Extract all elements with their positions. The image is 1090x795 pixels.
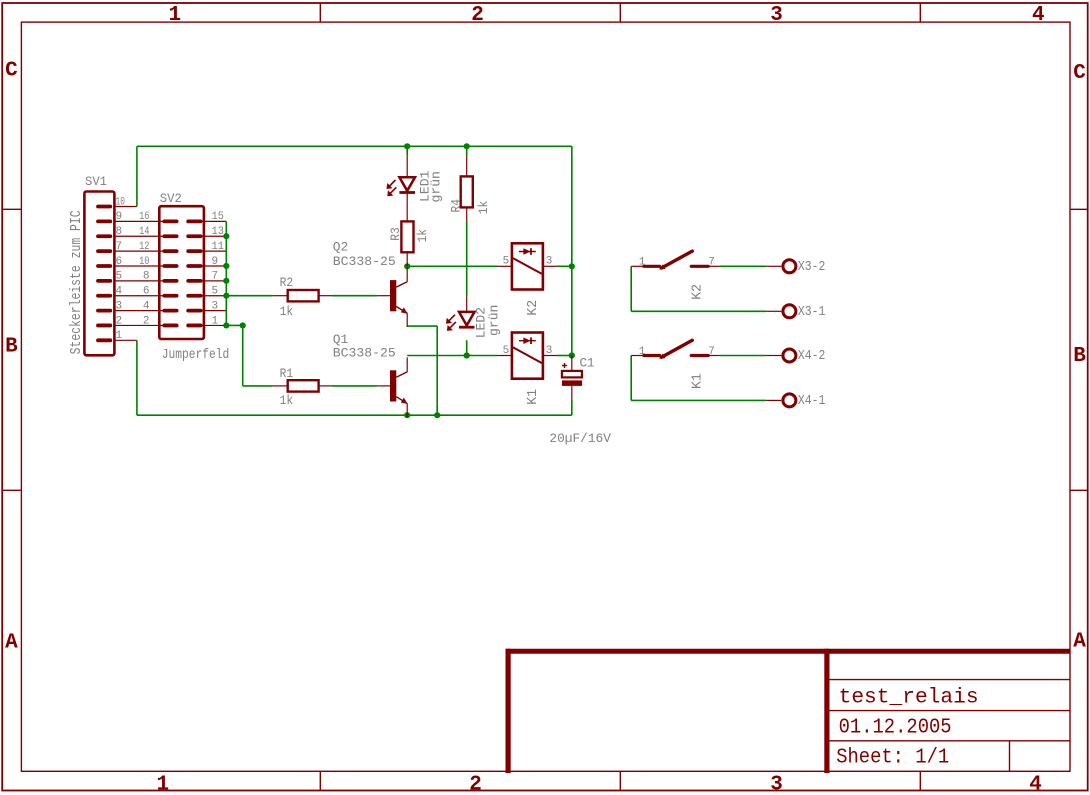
- transistor Q2 BC338-25: [377, 267, 408, 327]
- connector SV1 pin 2 line to SV2: [114, 324, 164, 326]
- svg-text:Sheet: 1/1: Sheet: 1/1: [836, 747, 949, 770]
- relay coil diode triangle: [523, 248, 530, 255]
- relay coil diode triangle: [523, 337, 530, 344]
- connector SV2 pin 13 line (right): [201, 235, 227, 237]
- connector SV1 pin 6 contact bar: [98, 264, 110, 268]
- svg-text:8: 8: [116, 226, 123, 238]
- junction dot SV2 pin 5: [223, 293, 229, 299]
- svg-text:1k: 1k: [280, 304, 294, 319]
- connector SV1 pin 3 line to SV2: [114, 310, 164, 312]
- svg-text:2: 2: [469, 774, 482, 795]
- svg-text:9: 9: [116, 211, 123, 223]
- svg-text:11: 11: [212, 241, 225, 253]
- wire R2 to Q2 base: [332, 295, 377, 297]
- LED LED2 emission arrow 1: [449, 315, 456, 322]
- svg-text:2: 2: [143, 315, 150, 327]
- svg-text:6: 6: [143, 286, 150, 298]
- connector SV2 pin 15 contact bar (right): [188, 219, 200, 223]
- resistor R1 body: [288, 380, 319, 391]
- svg-text:15: 15: [212, 211, 224, 223]
- svg-text:20µF/16V: 20µF/16V: [549, 431, 611, 446]
- LED LED2 anode pin: [466, 296, 468, 312]
- connector SV1 pin 10 line: [114, 206, 136, 208]
- junction dot LED2 cathode node: [464, 352, 470, 358]
- svg-text:1k: 1k: [476, 201, 491, 215]
- svg-text:3: 3: [546, 256, 553, 268]
- contact lever arrowhead: [659, 264, 666, 269]
- junction dot R1 branch: [240, 322, 246, 328]
- junction dot right rail at K2 pin 3: [569, 263, 575, 269]
- svg-text:X4-2: X4-2: [798, 349, 825, 364]
- connector SV1 pin 8 line to SV2: [114, 235, 164, 237]
- transistor collector diagonal: [396, 282, 407, 288]
- LED LED2 triangle: [459, 312, 475, 326]
- wire Q2 collector node to relay K2 pin 5: [407, 265, 497, 267]
- junction dot SV2 pin 1: [223, 322, 229, 328]
- svg-text:Q2: Q2: [333, 239, 349, 254]
- transistor emitter diagonal: [396, 307, 407, 314]
- wire SV2 odd-pin bus vertical: [225, 221, 227, 325]
- svg-text:grün: grün: [487, 305, 502, 336]
- svg-text:grün: grün: [429, 171, 444, 202]
- capacitor C1 top pin: [571, 356, 573, 371]
- relay coil diagonal: [513, 347, 542, 363]
- connector SV1 pin 10 contact bar: [98, 205, 110, 209]
- connector SV2 pin 16 contact bar (left): [164, 219, 176, 223]
- connector SV2 pin 2 contact bar (left): [164, 324, 176, 328]
- connector SV2 pin 3 contact bar (right): [188, 309, 200, 313]
- connector SV1 body: [84, 192, 114, 356]
- svg-text:K1: K1: [525, 389, 541, 405]
- svg-text:1: 1: [116, 330, 123, 342]
- wire R1 to Q1 base: [332, 385, 377, 387]
- transistor emitter diagonal: [396, 397, 407, 404]
- svg-text:R3: R3: [388, 227, 403, 241]
- connector SV2 pin 15 line (right): [201, 220, 227, 222]
- svg-text:K1: K1: [690, 373, 706, 389]
- resistor R3 bottom pin: [406, 252, 408, 266]
- connector SV2 pin 7 line (right): [201, 280, 227, 282]
- svg-text:C: C: [1073, 62, 1086, 85]
- svg-text:Jumperfeld: Jumperfeld: [162, 347, 230, 363]
- svg-text:13: 13: [212, 226, 224, 238]
- LED LED1 emission arrow 2: [390, 187, 397, 194]
- transistor base pin: [377, 385, 390, 387]
- connector SV2 pin 4 contact bar (left): [164, 309, 176, 313]
- svg-text:7: 7: [116, 241, 123, 253]
- svg-text:5: 5: [212, 286, 219, 298]
- svg-text:K2: K2: [690, 284, 706, 300]
- connector SV2 pin 6 contact bar (left): [164, 294, 176, 298]
- relay coil diode line: [519, 251, 536, 253]
- junction dot Q2 collector node: [404, 263, 410, 269]
- LED LED1 cathode bar: [399, 191, 415, 194]
- pad X4-2 pin line: [766, 355, 781, 357]
- resistor R4 body: [461, 176, 473, 207]
- svg-text:5: 5: [503, 256, 510, 268]
- svg-text:C1: C1: [580, 356, 595, 371]
- wire contact K1 to pad X4-1: [631, 399, 766, 401]
- title block sheet divider: [1009, 741, 1011, 772]
- connector SV1 pin 4 line to SV2: [114, 295, 164, 297]
- svg-text:4: 4: [143, 300, 150, 312]
- LED LED1 triangle: [399, 177, 415, 191]
- wire contact K1 pin1 vertical: [630, 356, 632, 401]
- svg-text:3: 3: [116, 300, 123, 312]
- resistor R4 top pin: [466, 155, 468, 176]
- svg-text:3: 3: [212, 300, 219, 312]
- svg-text:7: 7: [212, 271, 219, 283]
- wire stub top rail to R4: [466, 146, 468, 155]
- relay pin 5 line: [497, 265, 512, 267]
- title block thick top line: [506, 649, 1071, 654]
- pad X3-2 pin line: [766, 265, 781, 267]
- connector SV1 pin 3 contact bar: [98, 309, 110, 313]
- contact lever: [662, 251, 693, 268]
- svg-text:1: 1: [212, 315, 219, 327]
- pad X4-1 pin line: [766, 399, 781, 401]
- connector SV1 pin 9 contact bar: [98, 219, 110, 223]
- wire stub top rail to LED1: [406, 146, 408, 155]
- wire C1 bottom to ground rail: [571, 400, 573, 415]
- svg-text:A: A: [5, 632, 18, 655]
- contact fixed bar pin 7: [691, 354, 708, 357]
- pad X4-1 circle: [783, 394, 796, 407]
- resistor R2 right pin: [319, 295, 332, 297]
- svg-text:4: 4: [116, 286, 123, 298]
- connector SV2 pin 5 line (right): [201, 295, 227, 297]
- wire left rail lower segment from SV1 pin 1: [136, 340, 138, 415]
- relay coil box: [512, 333, 543, 379]
- junction dot SV2 pin 13: [223, 233, 229, 239]
- relay coil diode cathode bar: [530, 337, 532, 344]
- resistor R2 left pin: [272, 295, 287, 297]
- connector SV1 pin 5 contact bar: [98, 279, 110, 283]
- svg-text:X3-2: X3-2: [798, 260, 825, 275]
- relay pin 3 line: [543, 265, 557, 267]
- wire Q2 emitter vertical to ground rail: [436, 326, 438, 415]
- transistor emitter arrow: [401, 307, 408, 313]
- svg-text:1: 1: [168, 4, 181, 27]
- connector SV2 pin 3 line (right): [201, 310, 227, 312]
- relay coil box: [512, 243, 543, 289]
- transistor base pin: [377, 295, 390, 297]
- connector SV2 pin 9 line (right): [201, 265, 227, 267]
- wire left rail upper segment to SV1 pin 10: [136, 146, 138, 206]
- wire top supply rail: [137, 145, 572, 147]
- resistor R2 body: [288, 290, 319, 301]
- contact pin 1 stub: [631, 265, 644, 267]
- svg-text:10: 10: [139, 256, 149, 268]
- svg-text:X3-1: X3-1: [798, 305, 825, 320]
- svg-text:6: 6: [116, 256, 123, 268]
- title block row line 1: [827, 679, 1070, 681]
- wire bottom ground rail: [137, 414, 572, 416]
- LED LED2 emission arrow 2: [449, 322, 456, 329]
- wire contact K2 to pad X3-1: [631, 310, 766, 312]
- connector SV2 pin 10 contact bar (left): [164, 264, 176, 268]
- svg-text:5: 5: [116, 271, 123, 283]
- relay coil diode cathode bar: [530, 248, 532, 255]
- title block row line 3: [827, 740, 1070, 742]
- contact fixed bar pin 7: [691, 265, 708, 268]
- capacitor C1 plus sign: [562, 365, 567, 367]
- connector SV1 pin 7 line to SV2: [114, 250, 164, 252]
- svg-text:3: 3: [770, 4, 783, 27]
- connector SV2 pin 11 contact bar (right): [188, 249, 200, 253]
- connector SV2 pin 8 contact bar (left): [164, 279, 176, 283]
- svg-text:16: 16: [139, 211, 149, 223]
- svg-text:7: 7: [708, 346, 715, 358]
- wire contact K1 pin7 to pad X4-2: [720, 355, 766, 357]
- contact K1: [631, 340, 720, 359]
- LED LED1 emission arrow 1: [389, 180, 396, 187]
- pad X4-2 circle: [783, 349, 796, 362]
- wire R4 to LED2: [466, 222, 468, 297]
- connector SV2 pin 7 contact bar (right): [188, 279, 200, 283]
- connector SV2 pin 5 contact bar (right): [188, 294, 200, 298]
- svg-text:1: 1: [156, 774, 169, 795]
- pad X3-2 circle: [783, 260, 796, 273]
- connector SV1 pin 6 line to SV2: [114, 265, 164, 267]
- svg-text:1: 1: [639, 257, 646, 269]
- wire LED2 to node below: [466, 340, 468, 355]
- contact pin 7 line: [708, 265, 720, 267]
- frame left row ticks: [2, 208, 21, 210]
- svg-text:4: 4: [1032, 4, 1045, 27]
- wire relay K1 pin 3 to right rail: [557, 355, 572, 357]
- capacitor C1 top plate: [562, 371, 582, 378]
- contact pin 7 line: [708, 355, 720, 357]
- title block thick middle line: [824, 649, 829, 773]
- connector SV2 pin 1 line (right): [201, 324, 227, 326]
- resistor R3 top pin: [406, 193, 408, 222]
- transistor Q1 BC338-25: [377, 357, 408, 417]
- transistor emitter arrow: [401, 398, 408, 404]
- frame bottom column ticks: [319, 771, 321, 790]
- svg-text:B: B: [5, 335, 18, 358]
- svg-text:B: B: [1073, 345, 1086, 368]
- svg-text:R4: R4: [449, 199, 464, 213]
- connector SV2 pin 9 contact bar (right): [188, 264, 200, 268]
- pad X3-1 pin line: [766, 310, 781, 312]
- connector SV2 body: [159, 206, 204, 339]
- svg-text:1k: 1k: [280, 393, 294, 408]
- svg-text:14: 14: [139, 226, 150, 238]
- connector SV2 pin 12 contact bar (left): [164, 249, 176, 253]
- frame top column ticks: [319, 3, 321, 22]
- contact lever: [662, 340, 693, 357]
- junction dot Q1 emitter at ground rail: [404, 412, 410, 418]
- relay coil diagonal: [513, 258, 542, 274]
- svg-text:A: A: [1073, 630, 1086, 653]
- svg-text:BC338-25: BC338-25: [333, 346, 396, 361]
- svg-text:8: 8: [143, 271, 150, 283]
- LED LED1 anode pin: [406, 155, 408, 177]
- LED LED2 cathode bar: [459, 326, 475, 329]
- wire R1 branch vertical: [242, 325, 244, 385]
- connector SV1 pin 1 line: [114, 339, 136, 341]
- svg-text:01.12.2005: 01.12.2005: [839, 716, 952, 739]
- relay pin 3 line: [543, 355, 557, 357]
- resistor R4 bottom pin: [466, 207, 468, 221]
- relay K1 coil: [497, 333, 557, 379]
- connector SV2 pin 14 contact bar (left): [164, 234, 176, 238]
- connector SV1 pin 2 contact bar: [98, 324, 110, 328]
- resistor R1 right pin: [319, 385, 332, 387]
- svg-text:1k: 1k: [415, 229, 430, 243]
- svg-text:C: C: [5, 59, 18, 82]
- junction dot Q2 emitter branch at ground rail: [434, 412, 440, 418]
- wire relay K2 pin 3 to right rail: [557, 265, 572, 267]
- svg-text:12: 12: [139, 241, 149, 253]
- frame right row ticks: [1070, 208, 1088, 210]
- connector SV1 pin 1 contact bar: [98, 338, 110, 342]
- svg-text:10: 10: [116, 196, 125, 208]
- svg-text:SV1: SV1: [85, 174, 107, 189]
- connector SV1 pin 9 line to SV2: [114, 220, 164, 222]
- relay coil diode line: [519, 340, 536, 342]
- contact fixed bar pin 1: [644, 354, 660, 357]
- transistor base bar: [390, 280, 396, 311]
- svg-text:4: 4: [1029, 774, 1042, 795]
- svg-text:2: 2: [471, 4, 484, 27]
- wire jog from SV2 bus to R1 branch: [226, 324, 242, 326]
- wire SV2 pin5 to R2: [226, 295, 272, 297]
- junction dot top rail at LED1: [404, 143, 410, 149]
- svg-text:5: 5: [503, 345, 510, 357]
- wire right rail: [571, 146, 573, 355]
- contact lever arrowhead: [659, 354, 666, 359]
- connector SV2 pin 13 contact bar (right): [188, 234, 200, 238]
- svg-text:BC338-25: BC338-25: [333, 254, 396, 269]
- svg-text:R2: R2: [280, 275, 294, 290]
- wire Q2 emitter horizontal: [407, 325, 437, 327]
- wire R1 branch horizontal: [243, 385, 273, 387]
- svg-text:K2: K2: [525, 300, 541, 316]
- junction dot SV2 pin 7: [223, 278, 229, 284]
- svg-text:test_relais: test_relais: [839, 687, 979, 710]
- resistor R3 body: [401, 221, 413, 252]
- relay K2 coil: [497, 243, 557, 289]
- resistor R1 left pin: [272, 385, 287, 387]
- transistor emitter pin: [406, 404, 408, 418]
- pad X3-1 circle: [783, 305, 796, 318]
- capacitor C1 bottom pin: [571, 386, 573, 400]
- junction dot right rail at K1 pin 3: [569, 352, 575, 358]
- svg-text:2: 2: [116, 315, 123, 327]
- capacitor C1 bottom plate: [562, 380, 582, 386]
- transistor collector diagonal: [396, 372, 407, 378]
- svg-text:7: 7: [708, 257, 715, 269]
- transistor base bar: [390, 370, 396, 401]
- contact fixed bar pin 1: [644, 265, 660, 268]
- svg-text:9: 9: [212, 256, 219, 268]
- svg-text:3: 3: [770, 774, 783, 795]
- wire contact K2 pin7 to pad X3-2: [720, 265, 766, 267]
- connector SV1 pin 8 contact bar: [98, 234, 110, 238]
- connector SV2 pin 1 contact bar (right): [188, 324, 200, 328]
- svg-text:R1: R1: [280, 366, 294, 381]
- junction dot top rail at R4: [464, 143, 470, 149]
- svg-text:SV2: SV2: [160, 191, 182, 206]
- contact K2: [631, 251, 720, 270]
- svg-text:1: 1: [639, 346, 646, 358]
- wire Q1 collector to relay K1 pin 5: [407, 355, 497, 357]
- junction dot SV2 pin 9: [223, 263, 229, 269]
- connector SV1 pin 7 contact bar: [98, 249, 110, 253]
- svg-text:X4-1: X4-1: [798, 394, 825, 409]
- transistor collector pin: [406, 357, 408, 371]
- relay pin 5 line: [497, 355, 512, 357]
- title block row line 2: [827, 710, 1070, 712]
- svg-text:Steckerleiste zum PIC: Steckerleiste zum PIC: [68, 210, 85, 354]
- svg-text:3: 3: [546, 345, 553, 357]
- transistor collector pin: [406, 267, 408, 281]
- transistor emitter pin: [406, 313, 408, 327]
- connector SV1 pin 5 line to SV2: [114, 280, 164, 282]
- connector SV1 pin 4 contact bar: [98, 294, 110, 298]
- contact pin 1 stub: [631, 355, 644, 357]
- connector SV2 pin 11 line (right): [201, 250, 227, 252]
- wire contact K2 pin1 vertical: [630, 266, 632, 311]
- title block thick left line: [506, 649, 511, 773]
